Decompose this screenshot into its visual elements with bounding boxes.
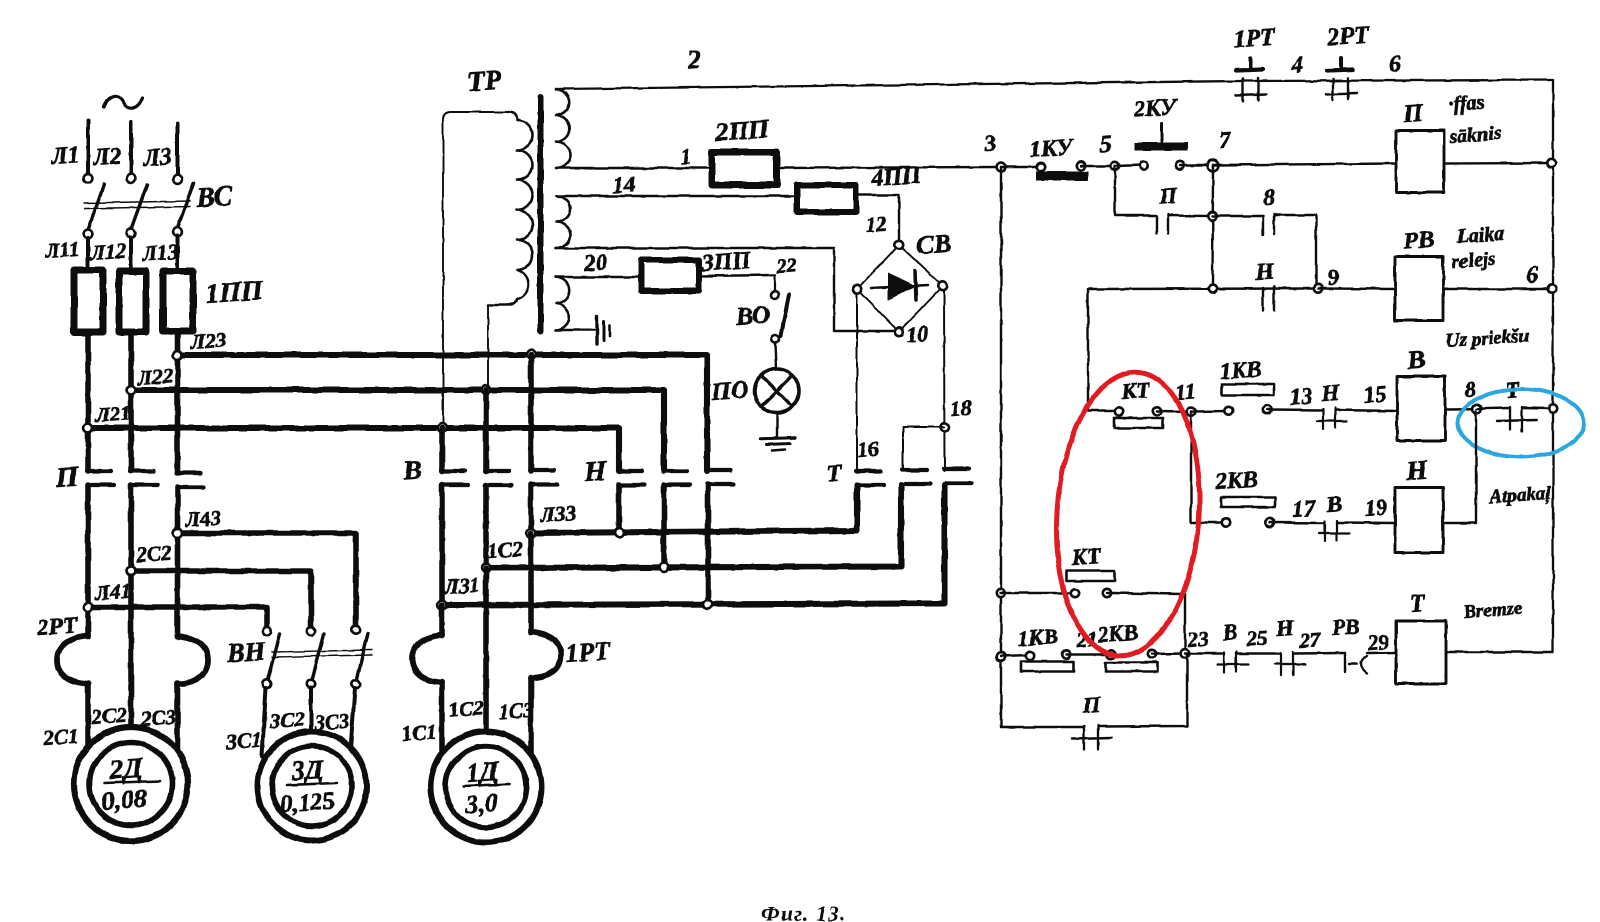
node 5: [1111, 162, 1119, 170]
contactor N column 2 lower: [661, 485, 667, 567]
ground symbol lamp: [760, 438, 795, 439]
rectifier diode: [871, 285, 928, 288]
svg-text:27: 27: [1298, 627, 1323, 653]
contact N NC brake row: [1280, 653, 1282, 676]
coil N: [1395, 488, 1443, 553]
svg-text:В: В: [401, 455, 423, 487]
contact KT NO holding: [1000, 592, 1075, 594]
wire KT row to node 23: [1107, 593, 1185, 653]
svg-text:ВО: ВО: [735, 302, 771, 331]
svg-text:Л12: Л12: [89, 239, 127, 266]
svg-text:Л3: Л3: [142, 144, 173, 172]
svg-text:Л31: Л31: [443, 573, 481, 599]
switch VN blade 1: [268, 634, 280, 680]
wire phase A fuse to contact P: [85, 332, 91, 471]
svg-text:Н: Н: [1320, 380, 1342, 406]
svg-text:3ПП: 3ПП: [700, 248, 753, 278]
node L33 start: [527, 529, 536, 538]
wire 22 stub to VO: [774, 276, 776, 291]
svg-text:1: 1: [680, 143, 693, 169]
contact 2RT thermal NC on bus 2: [1327, 70, 1353, 71]
node 2S2 junction: [127, 567, 136, 576]
switch VO terminal bottom: [771, 335, 779, 343]
wire node 9 to coil RV: [1318, 287, 1395, 290]
svg-text:Л41: Л41: [94, 579, 132, 605]
wire node 18 branch to T column 2: [903, 427, 944, 471]
contact P NC bottom: [1083, 726, 1085, 750]
contact P holding NO: [1156, 216, 1158, 234]
bus L21 heavy horizontal: [88, 428, 619, 471]
node 7-216 junction: [1208, 212, 1216, 220]
wire phase C below contact: [175, 487, 181, 637]
svg-text:2РТ: 2РТ: [36, 612, 79, 640]
contactor V column 3 upper: [528, 355, 534, 471]
svg-text:Bremze: Bremze: [1462, 598, 1524, 623]
svg-text:1КУ: 1КУ: [1029, 134, 1076, 162]
wire 3S2 to motor: [309, 688, 313, 732]
wire 1 fuse 2PP to node 3: [777, 167, 1001, 168]
svg-text:1С2: 1С2: [487, 537, 524, 563]
wire 2S3 to motor: [175, 683, 181, 751]
svg-text:2: 2: [685, 44, 701, 74]
svg-text:3: 3: [983, 130, 997, 156]
svg-text:2РТ: 2РТ: [1326, 22, 1371, 51]
wire 1S3 below loop: [528, 677, 534, 753]
node 8: [1473, 404, 1482, 413]
wire rectifier right corner to node 18: [943, 290, 946, 471]
contact 2KV NO brake row: [1107, 650, 1115, 658]
wire coil N to node 8 riser: [1443, 411, 1476, 523]
svg-text:0,125: 0,125: [280, 788, 336, 818]
fuse 4PP: [797, 185, 856, 212]
coil P: [1396, 131, 1444, 193]
wire L41 to VN switch: [88, 607, 267, 627]
wire right rail: [1552, 80, 1554, 652]
svg-text:П: П: [1402, 100, 1426, 128]
wire 1S1 below loop: [439, 681, 445, 752]
svg-text:2КВ: 2КВ: [1096, 619, 1139, 647]
svg-text:Л23: Л23: [189, 328, 227, 354]
svg-text:25: 25: [1245, 626, 1269, 651]
wire left rail bottom: [1001, 726, 1084, 728]
coil V: [1397, 377, 1445, 441]
svg-text:ВС: ВС: [194, 181, 233, 215]
switch VS terminal circles top: [84, 174, 93, 183]
contact T column 3: [944, 467, 969, 471]
ground symbol transformer winding 3: [556, 329, 595, 331]
wire 1S3 motor drop: [528, 533, 534, 633]
switch VS terminal circles bottom: [84, 230, 93, 239]
wire P NC to node 23 riser: [1098, 654, 1187, 727]
wire 4PP to rectifier top: [856, 195, 899, 241]
coil T: [1396, 621, 1446, 684]
node rail RV: [1548, 285, 1556, 293]
thermal element 2RT left loop: [57, 636, 88, 684]
contact T column 2: [902, 468, 927, 472]
wire rectifier left corner to T contact: [856, 293, 858, 471]
motor 2D outer circle: [74, 727, 188, 841]
wire phase L3 supply stub: [176, 124, 180, 175]
svg-text:Фиг. 13.: Фиг. 13.: [761, 901, 846, 922]
svg-text:2ПП: 2ПП: [713, 114, 770, 147]
contact V NC row N: [1324, 522, 1326, 542]
wire row 216 to contact 8: [1213, 215, 1264, 217]
contact V interlock row 216: [1262, 216, 1264, 235]
svg-text:Н: Н: [1404, 455, 1429, 487]
svg-text:1РТ: 1РТ: [564, 636, 612, 668]
svg-text:Atpakaļ: Atpakaļ: [1488, 483, 1552, 508]
switch VS blade 1: [88, 184, 104, 230]
switch VN blade 3: [357, 633, 368, 679]
svg-text:12: 12: [865, 212, 888, 237]
svg-text:6: 6: [1388, 51, 1402, 78]
svg-text:ПО: ПО: [710, 376, 750, 406]
svg-text:22: 22: [775, 255, 797, 278]
svg-text:13: 13: [1289, 383, 1314, 410]
wire lamp to ground: [776, 413, 778, 438]
switch VN terminal circles bottom: [263, 680, 271, 688]
contact T column 1: [856, 469, 881, 473]
wire node 5 branch down: [1115, 166, 1156, 216]
svg-text:3С1: 3С1: [225, 728, 263, 754]
contact 1KV limit switch: [1191, 410, 1229, 413]
svg-text:Laika: Laika: [1455, 223, 1505, 248]
transformer TR secondary winding 2: [556, 196, 571, 248]
coil RV: [1395, 257, 1443, 321]
fuse 1PP element 3: [163, 271, 193, 331]
wire 1S2 heavy to brake contact: [486, 485, 901, 568]
wire 2S1 to motor: [85, 683, 91, 748]
contact N interlock row 289: [1262, 288, 1264, 311]
svg-text:1ПП: 1ПП: [204, 275, 265, 310]
switch VS linkage bar: [84, 201, 190, 203]
fuse 3PP: [641, 260, 699, 291]
wire L12 to fuse: [129, 237, 133, 269]
bus L23 heavy horizontal: [178, 355, 708, 471]
wire L33 heavy to brake contact: [531, 485, 857, 533]
wire coil V to node 8: [1445, 408, 1477, 411]
node 3: [997, 163, 1006, 172]
contact V phase 2: [485, 469, 509, 473]
switch VS blade 2: [131, 185, 147, 229]
svg-text:20: 20: [583, 249, 609, 276]
svg-text:1С1: 1С1: [401, 720, 438, 746]
svg-text:Н: Н: [582, 455, 608, 488]
contact P phase A: [87, 469, 111, 473]
svg-text:КТ: КТ: [1070, 543, 1103, 570]
contact V phase 3: [530, 468, 554, 472]
switch VN terminal circles top: [263, 627, 271, 635]
svg-text:РВ: РВ: [1402, 227, 1435, 255]
svg-text:В: В: [1221, 619, 1238, 645]
svg-text:Л13: Л13: [141, 240, 179, 266]
svg-text:В: В: [1325, 491, 1343, 517]
node 23: [1181, 649, 1190, 658]
contact V NC brake row: [1185, 652, 1224, 654]
wire phase B below contact: [128, 485, 134, 727]
node 7: [1208, 160, 1219, 171]
svg-text:2С1: 2С1: [42, 724, 80, 750]
node V2 tap junction: [482, 386, 491, 395]
fuse 1PP element 2: [119, 271, 146, 332]
svg-text:1РТ: 1РТ: [1233, 24, 1277, 53]
annotation blue ellipse: [1458, 389, 1584, 457]
rectifier bridge SV: [857, 245, 943, 332]
svg-text:1Д: 1Д: [465, 756, 501, 788]
node V1 tap junction: [438, 424, 447, 433]
wire phase A below contact: [85, 485, 91, 637]
svg-text:19: 19: [1364, 494, 1389, 521]
node rail P: [1547, 159, 1555, 167]
svg-text:0,08: 0,08: [100, 784, 147, 816]
svg-text:1С3: 1С3: [498, 698, 535, 724]
node L23 junction: [173, 351, 182, 360]
wire phase C fuse to contact P: [175, 331, 181, 471]
wire 3PP to node 22: [699, 275, 775, 276]
node L22 junction: [127, 386, 136, 395]
wire left control rail: [1000, 167, 1002, 727]
thermal element 2RT right loop: [178, 636, 209, 684]
contact N NC row V: [1322, 409, 1324, 429]
svg-text:1КВ: 1КВ: [1017, 623, 1059, 651]
node rail KT row: [996, 589, 1004, 597]
fuse 1PP element 1: [74, 270, 103, 332]
svg-text:16: 16: [857, 437, 880, 462]
transformer TR secondary winding 1: [556, 89, 570, 168]
svg-text:ВН: ВН: [225, 636, 266, 668]
contact KT timed NC: [1115, 407, 1123, 415]
node 1S2 start: [482, 564, 491, 573]
node 9: [1314, 284, 1322, 292]
wire 1KU to node 5: [1081, 165, 1115, 167]
switch VN blade 2: [312, 634, 324, 680]
wire coil RV to right rail: [1443, 288, 1552, 290]
contactor V column 1 upper: [439, 428, 445, 471]
svg-text:Н: Н: [1254, 259, 1277, 286]
node rail V row: [1549, 404, 1557, 412]
svg-text:3С2: 3С2: [268, 707, 306, 733]
contactor N column 3 lower: [705, 484, 711, 605]
svg-text:Н: Н: [1275, 615, 1296, 641]
wire coil T to right rail: [1446, 651, 1553, 653]
svg-text:3,0: 3,0: [463, 788, 498, 819]
svg-text:15: 15: [1363, 381, 1388, 408]
wire secondary 2 bottom to rectifier bottom corner: [556, 248, 894, 331]
wire 1S2 motor drop: [483, 568, 489, 732]
wire coil P to right rail: [1444, 162, 1551, 165]
wire row 289: [1088, 287, 1318, 290]
wire 20 secondary to fuse 3PP: [556, 276, 641, 278]
contactor V column 2 lower: [483, 485, 489, 568]
svg-text:4: 4: [1290, 52, 1305, 79]
contact P phase B: [130, 469, 154, 473]
svg-text:10: 10: [906, 321, 930, 347]
node V3 tap junction: [527, 350, 536, 359]
svg-text:СВ: СВ: [915, 229, 952, 260]
wire 1S1 motor drop: [439, 605, 445, 636]
motor 3D inner circle: [272, 746, 352, 826]
node rail T row: [997, 652, 1005, 660]
node 1S2 x N2 junction: [660, 563, 669, 572]
node L31 x N3 junction: [704, 600, 713, 609]
wire phase L2 supply stub: [129, 122, 133, 174]
transformer TR primary lead bottom: [487, 305, 489, 390]
transformer TR primary lead left: [443, 112, 508, 424]
svg-text:9: 9: [1327, 264, 1341, 290]
svg-text:1С2: 1С2: [448, 696, 485, 722]
svg-text:П: П: [54, 461, 80, 494]
contactor N column 1 lower: [616, 485, 622, 533]
wire L31 heavy to brake contact: [442, 485, 945, 605]
svg-text:17: 17: [1292, 495, 1318, 522]
transformer TR primary winding: [488, 112, 533, 305]
contact 2KV limit switch: [1222, 518, 1230, 526]
svg-text:1КВ: 1КВ: [1219, 356, 1263, 384]
svg-text:ТР: ТР: [466, 65, 503, 98]
svg-text:2С2: 2С2: [135, 541, 173, 567]
wire to coil V: [1335, 410, 1397, 411]
node AC supply tilde symbol: [104, 96, 142, 108]
svg-text:·ffas: ·ffas: [1448, 92, 1485, 116]
wire 1KV to contact N: [1267, 408, 1323, 411]
wire 2KU to node 7: [1180, 164, 1213, 166]
switch VN linkage: [272, 650, 372, 652]
contact T NC blue-circled: [1477, 407, 1510, 410]
node L21 junction: [84, 424, 93, 433]
switch VO blade: [781, 294, 789, 336]
wire 14 secondary to fuse 4PP: [556, 195, 797, 197]
wire 2 top control bus: [556, 80, 1553, 89]
node 11: [1187, 407, 1196, 416]
switch VS blade 3: [178, 183, 194, 228]
wire KT to node 11: [1157, 410, 1191, 413]
thermal element 1RT right loop: [531, 632, 561, 678]
switch VO terminal top: [771, 291, 779, 299]
wire L11 to fuse: [86, 238, 90, 268]
wire VO to lamp: [775, 343, 776, 369]
wire contact 8 to drop: [1274, 215, 1316, 289]
bus L22 heavy horizontal: [131, 390, 664, 471]
contact N phase 1: [618, 469, 642, 473]
svg-text:29: 29: [1366, 630, 1390, 656]
wire 3S3 to motor: [350, 688, 355, 756]
wire phase B fuse to contact P: [128, 332, 134, 471]
wire 2KV to contact V: [1270, 521, 1325, 524]
node 18: [941, 423, 949, 431]
transformer TR secondary winding 3: [556, 277, 569, 330]
transformer TR core: [538, 97, 544, 331]
wire node 11 drop: [1191, 412, 1226, 523]
contactor V column 3 lower: [528, 484, 534, 533]
fuse 2PP: [712, 152, 777, 185]
contact 1KV NO brake row: [1001, 655, 1030, 656]
svg-text:Л43: Л43: [184, 506, 222, 532]
svg-text:Л33: Л33: [539, 501, 577, 527]
svg-text:КТ: КТ: [1120, 377, 1153, 404]
rectifier corner terminals: [895, 241, 903, 249]
svg-text:Л21: Л21: [94, 401, 132, 427]
wire to coil N: [1337, 521, 1395, 524]
svg-text:Л2: Л2: [92, 143, 123, 171]
svg-text:П: П: [1158, 183, 1179, 209]
node L31 start: [438, 601, 447, 610]
contact RV timed NC: [1344, 653, 1346, 672]
wire L43 to VN switch: [178, 533, 357, 627]
motor 1D inner circle: [446, 747, 527, 828]
wire row 289 drop to KT row: [1088, 289, 1119, 411]
node 7-289 junction: [1208, 285, 1216, 293]
contact V phase 1: [441, 469, 465, 473]
annotation red ellipse: [1047, 367, 1208, 660]
wire node 7 vertical drop: [1211, 165, 1214, 289]
contactor V column 1 lower: [439, 485, 445, 605]
svg-text:2КВ: 2КВ: [1214, 466, 1259, 494]
wire 2S2 to VN switch: [131, 571, 311, 627]
lamp PO: [755, 369, 799, 413]
svg-text:6: 6: [1526, 262, 1540, 289]
svg-text:18: 18: [950, 396, 973, 421]
contact N phase 2: [663, 469, 687, 473]
motor 1D outer circle: [431, 732, 542, 843]
node L41 junction: [84, 603, 93, 612]
motor 3D outer circle: [258, 732, 367, 841]
svg-text:П: П: [1081, 692, 1103, 718]
svg-text:4ПП: 4ПП: [870, 163, 923, 193]
motor 2D inner circle: [90, 743, 173, 826]
svg-text:23: 23: [1186, 627, 1210, 652]
svg-text:2КУ: 2КУ: [1132, 94, 1180, 122]
contact N phase 3: [707, 468, 731, 472]
button 1KU stop NC: [1001, 166, 1041, 168]
wire 1 secondary to fuse 2PP: [556, 167, 712, 169]
wire L13 to fuse: [176, 236, 180, 269]
wire phase L1 supply stub: [86, 120, 90, 174]
svg-text:14: 14: [612, 171, 637, 198]
svg-text:3Д: 3Д: [289, 754, 326, 786]
svg-text:Л22: Л22: [136, 364, 174, 391]
contact 1RT thermal NC on bus 2: [1236, 70, 1263, 71]
svg-text:relejs: relejs: [1451, 248, 1497, 273]
contactor V column 2 upper: [483, 390, 489, 471]
contact P phase C: [177, 471, 201, 475]
svg-text:В: В: [1405, 344, 1426, 375]
wire 3S1 to motor: [262, 688, 266, 756]
wire node 7 to coil P: [1213, 164, 1396, 166]
node L33 x N1 junction: [615, 528, 624, 537]
svg-text:РВ: РВ: [1330, 613, 1361, 640]
thermal element 1RT left loop: [412, 635, 442, 682]
button 2KU start NO: [1115, 165, 1144, 166]
svg-text:Л11: Л11: [44, 237, 81, 263]
svg-text:8: 8: [1263, 184, 1277, 210]
svg-text:Л1: Л1: [50, 142, 81, 170]
svg-text:sāknis: sāknis: [1448, 122, 1503, 148]
svg-text:5: 5: [1099, 131, 1113, 158]
wire P holding to node 7 drop: [1168, 214, 1212, 217]
